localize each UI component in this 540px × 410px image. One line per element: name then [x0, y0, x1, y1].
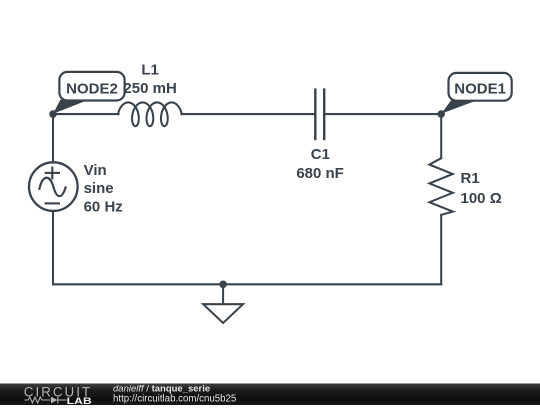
ground: [203, 304, 243, 323]
node NODE2 bubble: [53, 72, 125, 114]
wire: NODE2 junction to L1 left terminal: [53, 113, 119, 115]
CircuitLab logo circuit squiggle: [25, 397, 67, 404]
voltage source Vin: [29, 162, 78, 211]
svg-text:LAB: LAB: [67, 396, 92, 405]
svg-text:NODE2: NODE2: [66, 80, 118, 97]
junction dot NODE2: [49, 110, 57, 118]
svg-text:C1: C1: [311, 146, 330, 163]
wire: Vin - terminal to bottom-left corner: [52, 211, 54, 284]
svg-text:680 nF: 680 nF: [296, 165, 344, 182]
wire: R1 bottom terminal to bottom-right corner: [440, 215, 442, 284]
node NODE1 bubble: [441, 73, 512, 114]
inductor L1: [118, 102, 182, 126]
wire: L1 right terminal to C1 left plate: [182, 113, 315, 115]
wire: NODE1 junction down to R1 top terminal: [440, 114, 442, 158]
resistor R1: [429, 158, 452, 215]
wire: C1 right plate to NODE1 junction: [325, 113, 441, 115]
junction dot NODE1: [437, 110, 445, 118]
wire: NODE2 junction down to Vin + terminal: [52, 114, 54, 162]
wire: ground stub: [222, 284, 224, 304]
svg-text:100 Ω: 100 Ω: [461, 190, 502, 207]
junction dot ground: [219, 281, 227, 289]
svg-text:NODE1: NODE1: [454, 81, 506, 98]
svg-text:R1: R1: [461, 170, 480, 187]
wire: bottom rail: [53, 283, 441, 285]
capacitor C1: [315, 90, 324, 139]
svg-text:Vin: Vin: [84, 162, 107, 179]
svg-text:sine: sine: [84, 180, 114, 197]
svg-text:60 Hz: 60 Hz: [84, 198, 123, 215]
svg-text:250 mH: 250 mH: [123, 80, 176, 97]
svg-text:L1: L1: [141, 61, 159, 78]
svg-text:http://circuitlab.com/cnu5b25: http://circuitlab.com/cnu5b25: [113, 394, 236, 405]
